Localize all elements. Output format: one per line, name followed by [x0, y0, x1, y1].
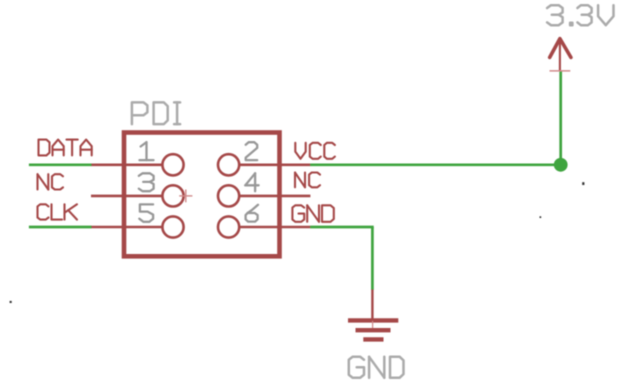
pin number 5	[139, 204, 153, 221]
pin 1 (DATA side)	[91, 154, 184, 175]
wire CLK net	[29, 226, 92, 229]
pin number 3	[139, 173, 154, 191]
pin 3 (NC side)	[91, 185, 184, 206]
pin number 4	[245, 173, 258, 191]
net label NC (right)	[295, 173, 320, 188]
wire DATA net	[29, 163, 92, 166]
pin 2 (VCC side)	[218, 154, 310, 175]
pin 6 (GND side)	[218, 216, 310, 237]
component origin cross	[179, 190, 192, 203]
pin 5 (CLK side)	[91, 216, 184, 237]
ground symbol GND	[348, 290, 398, 340]
connector PDI body	[124, 133, 280, 257]
supply symbol 3.3V arrow	[550, 39, 571, 71]
pin number 2	[246, 142, 258, 160]
label GND	[349, 357, 404, 378]
net label GND (right)	[292, 205, 333, 222]
pin 4 (NC side)	[218, 185, 310, 206]
junction VCC node	[554, 158, 568, 172]
net label DATA	[39, 140, 92, 156]
label 3.3V	[547, 5, 613, 25]
wire GND net horizontal	[310, 226, 374, 229]
supply pin cross tick	[550, 70, 571, 72]
pin number 1	[140, 142, 154, 160]
net label CLK	[38, 204, 78, 219]
net label NC (left)	[38, 174, 64, 189]
net label VCC	[295, 143, 335, 159]
pin number 6	[246, 205, 258, 222]
wire GND net vertical	[371, 227, 374, 290]
connector name label PDI	[132, 102, 180, 124]
wire VCC net horizontal	[310, 163, 561, 166]
wire VCC net vertical	[559, 71, 562, 165]
